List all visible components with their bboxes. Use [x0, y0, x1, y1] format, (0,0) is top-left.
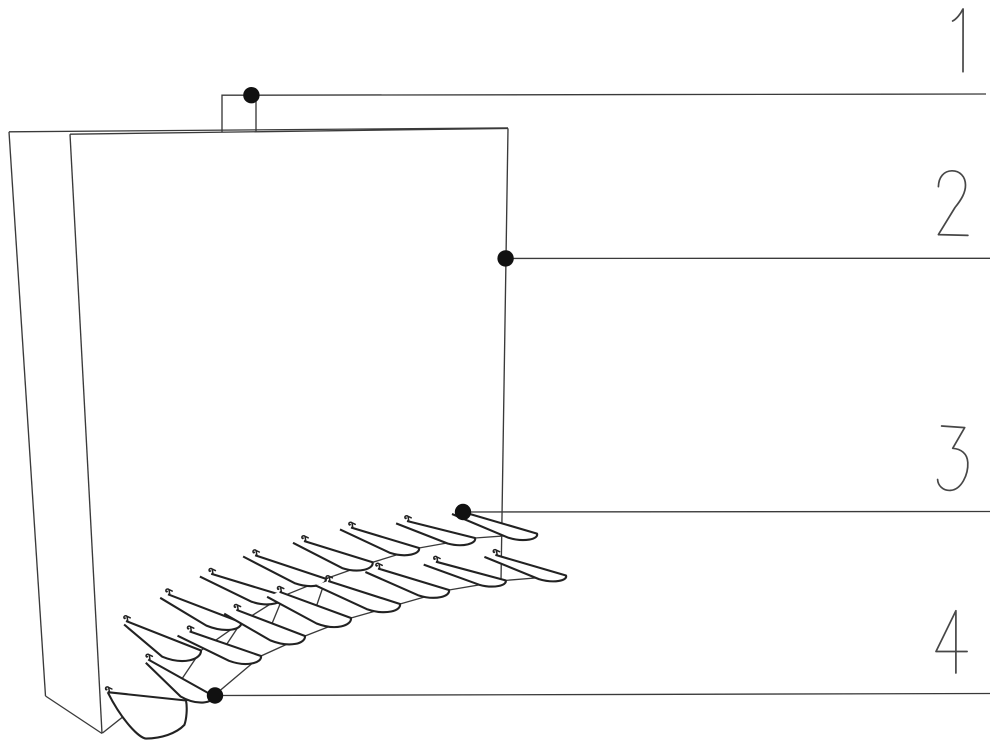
front row link rod: [186, 576, 566, 701]
blade F8: [424, 562, 506, 587]
blade F9: [484, 555, 566, 581]
blade F2: [146, 660, 214, 703]
blade F4: [224, 610, 305, 645]
numeral 2: [938, 171, 968, 236]
blade B5: [293, 541, 373, 571]
leader line 4: [215, 694, 990, 696]
leader dot 2: [497, 250, 513, 266]
wall left outer edge: [9, 132, 46, 696]
leader line 3: [463, 511, 990, 514]
leader line 2: [506, 257, 990, 259]
wall left bottom edge: [46, 696, 103, 734]
blade B7: [396, 521, 475, 545]
strut to F3: [227, 622, 242, 644]
wall left inner edge: [70, 134, 102, 733]
blade F7: [365, 569, 449, 598]
blade B6: [340, 528, 419, 556]
numeral 4: [936, 611, 967, 673]
strut to F4: [272, 596, 283, 624]
numeral 3: [938, 426, 968, 490]
blade B3: [200, 574, 284, 605]
leader dot 4: [207, 687, 223, 703]
top tab: [222, 95, 256, 132]
wall front top edge: [70, 128, 508, 134]
leader dot 1: [243, 87, 259, 103]
strut to F1: [103, 697, 149, 734]
blade B4: [243, 555, 326, 586]
leader dot 3: [455, 504, 471, 520]
blade B1: [124, 621, 201, 661]
wall back top edge: [9, 128, 508, 132]
blade B2: [160, 594, 241, 630]
back row link rod: [201, 534, 537, 651]
numeral 1: [953, 9, 964, 72]
blade F5: [267, 592, 351, 627]
blade F3: [178, 631, 262, 664]
blade F1: [108, 692, 187, 738]
strut to F5: [317, 579, 326, 606]
wall right edge: [501, 128, 508, 581]
strut to F2: [182, 651, 201, 679]
blade F6: [315, 581, 400, 612]
blade B8: [452, 512, 537, 540]
leader line 1: [251, 94, 986, 95]
